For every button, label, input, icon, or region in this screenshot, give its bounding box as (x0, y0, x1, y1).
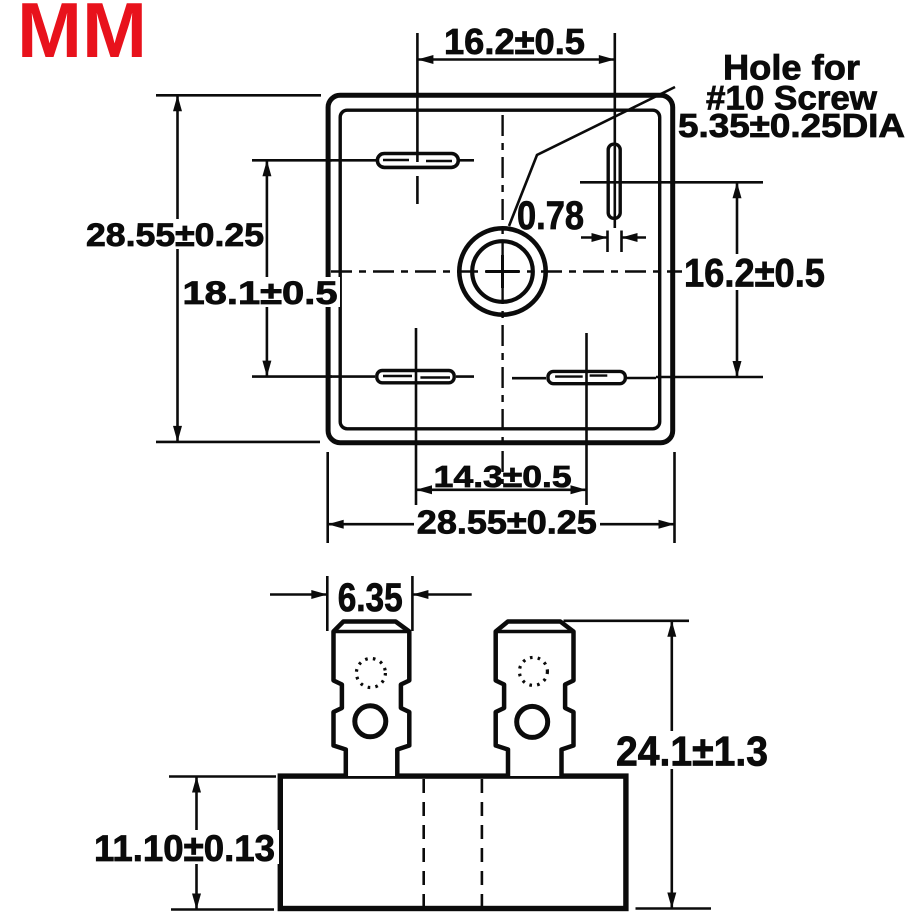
centerline vertical (dash-dot) (501, 115, 503, 484)
svg-text:6.35: 6.35 (338, 576, 403, 620)
terminal tab left (side view) (334, 622, 410, 777)
dimension 0.78 (slot width) (517, 194, 646, 252)
terminal slot top-left (326, 154, 474, 205)
side view: hidden edge dashed left (422, 779, 425, 906)
extension line x=417.4 (top 16.2 left / slot center) (416, 33, 419, 163)
hole centerline crosshair (486, 255, 519, 288)
centerline horizontal (dash-dot) (331, 270, 686, 272)
top view: outer body outline (328, 95, 673, 442)
dimension 16.2±0.5 (right, vertical) (580, 182, 828, 377)
tab right hole (517, 706, 548, 737)
svg-text:MM: MM (17, 0, 147, 74)
terminal slot right (vertical) (608, 144, 620, 218)
tab left hole (355, 706, 386, 737)
mounting hole outer circle (459, 228, 545, 314)
mounting hole inner circle (472, 241, 533, 302)
tab right hidden hole (dotted) (519, 657, 547, 685)
tab left hidden hole (dotted) (356, 659, 385, 688)
dimension 6.35 (tab width) (270, 576, 472, 631)
svg-text:16.2±0.5: 16.2±0.5 (684, 252, 825, 296)
terminal slot bottom-left (326, 371, 474, 383)
svg-text:16.2±0.5: 16.2±0.5 (444, 21, 585, 62)
svg-text:28.55±0.25: 28.55±0.25 (417, 504, 597, 541)
dimension 18.1±0.5 (left inner, vertical) (180, 160, 340, 376)
svg-text:0.78: 0.78 (517, 194, 584, 238)
label MM (units) (17, 0, 147, 74)
svg-text:28.55±0.25: 28.55±0.25 (86, 217, 264, 253)
side view: body block (280, 776, 626, 908)
note: Hole for #10 Screw 5.35±0.25DIA (678, 49, 905, 145)
dimension 16.2±0.5 (top) (417, 21, 614, 64)
svg-text:5.35±0.25DIA: 5.35±0.25DIA (678, 107, 905, 144)
terminal tab right (side view) (496, 622, 574, 777)
extension lines for 14.3 dimension (416, 328, 587, 505)
leader line to mounting hole (509, 87, 675, 226)
side view: hidden edge dashed right (481, 779, 484, 906)
svg-text:18.1±0.5: 18.1±0.5 (183, 275, 338, 311)
svg-text:24.1±1.3: 24.1±1.3 (616, 728, 768, 775)
dimension 11.10±0.13 (left, vertical) (91, 777, 279, 910)
dimension 24.1±1.3 (right, vertical) (564, 621, 772, 909)
dimension 28.55±0.25 (bottom) (328, 452, 675, 543)
terminal slot bottom-right (512, 371, 656, 383)
extension line x=614.8 (top 16.2 right / right slot center) (613, 33, 616, 228)
dimension 14.3±0.5 (bottom) (416, 459, 587, 494)
svg-text:14.3±0.5: 14.3±0.5 (434, 459, 572, 494)
svg-text:11.10±0.13: 11.10±0.13 (94, 828, 275, 869)
dimension 28.55±0.25 (left, vertical) (84, 95, 321, 442)
top view: inner body edge (340, 110, 660, 429)
